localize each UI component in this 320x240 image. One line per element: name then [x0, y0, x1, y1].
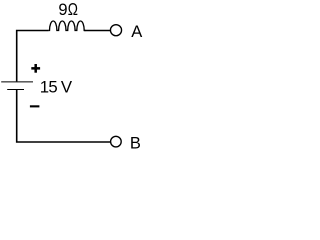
- svg-text:15 V: 15 V: [40, 77, 73, 96]
- svg-text:9: 9: [58, 1, 67, 19]
- svg-text:B: B: [130, 134, 141, 152]
- svg-text:A: A: [131, 23, 142, 41]
- svg-text:Ω: Ω: [68, 0, 78, 19]
